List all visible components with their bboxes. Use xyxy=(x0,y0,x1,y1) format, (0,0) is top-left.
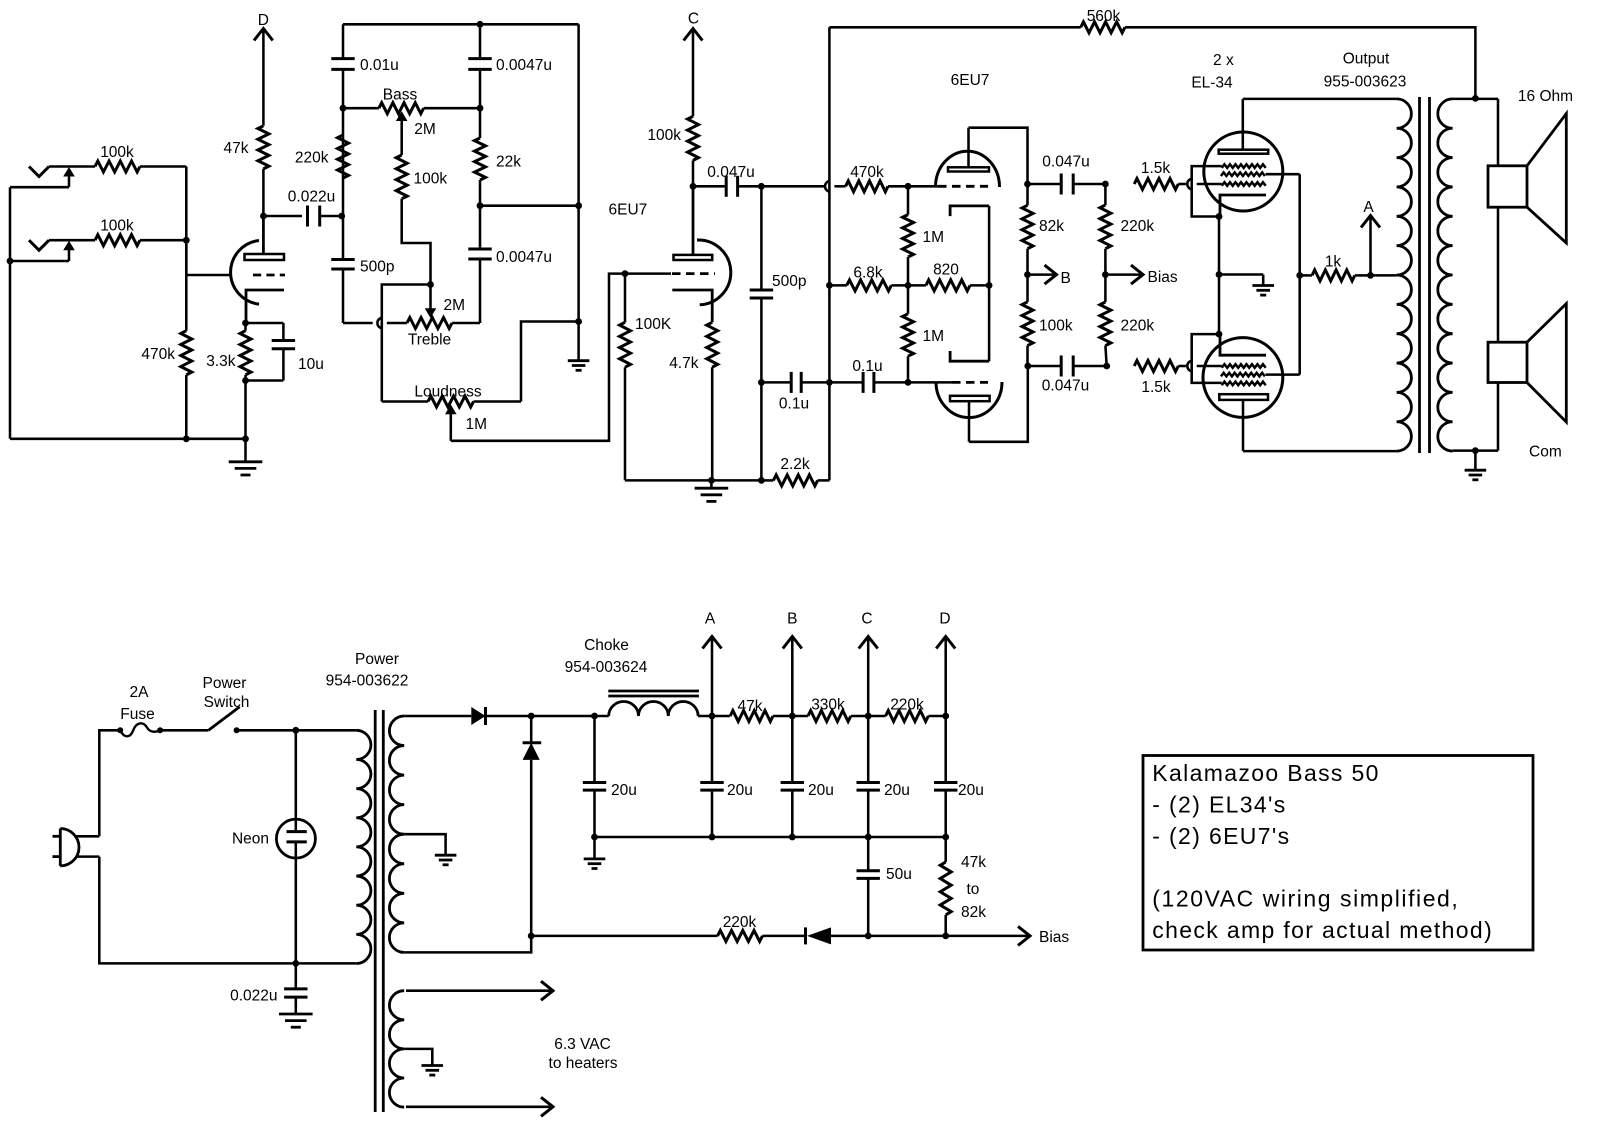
junction cathode ground tap xyxy=(1216,271,1223,278)
junction V1 ground rail xyxy=(242,435,249,442)
wire V5 plate to primary xyxy=(1243,450,1397,453)
capacitor C13 0.022u (line) xyxy=(295,963,298,989)
svg-text:100k: 100k xyxy=(100,144,134,161)
svg-text:220k: 220k xyxy=(890,697,924,714)
triode V2 plate xyxy=(674,255,713,260)
arrow node B (supply) xyxy=(783,637,802,649)
wire left rail xyxy=(9,187,12,439)
capacitor C18 20u xyxy=(944,716,947,783)
svg-text:2M: 2M xyxy=(444,297,466,314)
junction node B rail xyxy=(789,713,796,720)
wire hop (upper grid over bracket) xyxy=(1187,179,1192,190)
arrow Bias (bottom) xyxy=(946,935,1029,938)
wire J1 to node xyxy=(140,165,186,168)
junction V5 cathode xyxy=(1216,331,1223,338)
svg-text:330k: 330k xyxy=(811,697,845,714)
capacitor C4 500p xyxy=(331,258,354,261)
ground (filter rail) xyxy=(593,837,596,859)
V5 suppressor bracket xyxy=(1192,334,1222,383)
wire diode to choke xyxy=(531,715,609,718)
junction rail C18 xyxy=(942,834,949,841)
svg-text:47k: 47k xyxy=(224,140,249,157)
junction 500p bottom xyxy=(758,379,765,386)
svg-text:100K: 100K xyxy=(635,316,672,333)
svg-text:2.2k: 2.2k xyxy=(780,456,810,473)
capacitor C10 0.1u xyxy=(829,381,863,384)
junction V3B out xyxy=(1024,363,1031,370)
junction screen rail xyxy=(1296,272,1303,279)
svg-text:500p: 500p xyxy=(772,273,806,290)
wire J2 to node xyxy=(140,239,186,242)
resistor R3 47k (V1 plate) xyxy=(258,126,269,169)
svg-text:6.3 VAC: 6.3 VAC xyxy=(554,1036,611,1053)
pentode V4 envelope xyxy=(1204,132,1283,211)
svg-text:1k: 1k xyxy=(1325,254,1342,271)
ground (V1 cathode) xyxy=(244,439,247,462)
svg-text:B: B xyxy=(1061,270,1071,287)
resistor R5 3.3k (cathode) xyxy=(240,331,251,375)
resistor R21 220k (lower) xyxy=(1100,302,1111,346)
junction V1 plate node xyxy=(260,213,267,220)
svg-text:220k: 220k xyxy=(1121,318,1155,335)
svg-text:0.047u: 0.047u xyxy=(1042,154,1089,171)
triode V3A plate xyxy=(948,167,989,171)
wire 220k to D xyxy=(928,715,945,718)
wire treble wiper top rail xyxy=(382,285,431,402)
svg-text:Choke: Choke xyxy=(584,637,629,654)
wire PI grid xyxy=(908,185,938,188)
svg-text:20u: 20u xyxy=(611,782,637,799)
triode V1 plate xyxy=(245,254,285,260)
resistor R25 560k (feedback) xyxy=(1081,22,1125,33)
svg-text:22k: 22k xyxy=(496,154,521,171)
diode D3 (bias) xyxy=(804,927,807,944)
junction neon top xyxy=(292,727,299,734)
svg-text:0.0047u: 0.0047u xyxy=(496,57,552,74)
output transformer T2 secondary xyxy=(1438,99,1453,451)
resistor R24 1k (screen) xyxy=(1300,274,1312,277)
capacitor C17 20u xyxy=(867,716,870,783)
pentode V4 grid g3 xyxy=(1222,164,1266,168)
svg-text:100k: 100k xyxy=(414,171,448,188)
junction top rail xyxy=(477,21,484,28)
resistor R4 470k (grid leak) xyxy=(181,331,192,375)
svg-text:(120VAC wiring simplified,: (120VAC wiring simplified, xyxy=(1152,886,1459,912)
ground (line cap) xyxy=(295,997,298,1014)
junction lower drive xyxy=(1103,363,1110,370)
pentode V5 grid g3 xyxy=(1222,382,1266,386)
junction bias feed xyxy=(1102,271,1109,278)
capacitor C15 20u xyxy=(711,716,714,783)
resistor R23 1.5k (lower) xyxy=(1134,361,1178,372)
junction 0.1u right xyxy=(905,379,912,386)
svg-text:20u: 20u xyxy=(727,782,753,799)
V4 suppressor bracket xyxy=(1192,166,1222,216)
filter ground rail xyxy=(595,836,946,839)
capacitor C6 0.0047u (bottom) xyxy=(479,206,482,249)
junction 2.2k left xyxy=(758,477,765,484)
junction rail C14 xyxy=(591,834,598,841)
svg-text:Loudness: Loudness xyxy=(414,384,481,401)
svg-text:- (2) EL34's: - (2) EL34's xyxy=(1152,791,1286,817)
capacitor C14 20u xyxy=(593,716,596,783)
resistor R2 100k (input 2) xyxy=(95,235,140,246)
capacitor C9 0.1u xyxy=(761,381,791,384)
output transformer T2 core xyxy=(1418,97,1421,453)
svg-text:220k: 220k xyxy=(723,914,757,931)
wire loudness right to ground column xyxy=(521,322,579,402)
svg-text:50u: 50u xyxy=(886,866,912,883)
junction neon bottom xyxy=(292,960,299,967)
resistor R27 330k (B-C) xyxy=(808,711,851,722)
svg-text:C: C xyxy=(861,611,872,628)
svg-text:2A: 2A xyxy=(130,684,150,701)
resistor R8 22k xyxy=(475,138,486,180)
triode V3A cathode xyxy=(950,206,989,216)
wire to speaker 1 xyxy=(1497,99,1500,166)
svg-text:82k: 82k xyxy=(961,904,986,921)
svg-text:Power: Power xyxy=(355,651,399,668)
pentode V5 grid g2 xyxy=(1221,373,1265,377)
triode V1 grid (dashed) xyxy=(253,274,285,277)
power transformer T1 HV secondary xyxy=(389,716,404,952)
svg-text:EL-34: EL-34 xyxy=(1191,75,1233,92)
wire hop (PI input over feedback line) xyxy=(825,181,830,192)
junction rail C15 xyxy=(709,834,716,841)
capacitor C7 0.047u xyxy=(693,185,726,188)
jack J2 tip arrow xyxy=(10,260,69,263)
resistor R22 1.5k (upper) xyxy=(1134,179,1178,190)
cathode tie bracket xyxy=(988,206,991,361)
resistor R12 470k (PI input) xyxy=(846,181,888,192)
svg-text:D: D xyxy=(258,12,269,29)
arrow node D (supply) xyxy=(936,637,955,649)
junction 470k bottom xyxy=(183,435,190,442)
triode V1 cathode xyxy=(246,290,284,323)
triode V2 grid (dashed) xyxy=(672,272,715,275)
triode V3A envelope (dome) xyxy=(936,151,1000,187)
diode D2 (bias rectifier) xyxy=(530,716,533,743)
wire mid rail xyxy=(480,204,579,207)
wire cathode rail xyxy=(1218,217,1221,335)
junction rail C17 xyxy=(865,834,872,841)
wire PI input row xyxy=(761,185,824,188)
svg-text:82k: 82k xyxy=(1039,218,1064,235)
junction node D rail xyxy=(942,713,949,720)
junction mid rail right xyxy=(575,202,582,209)
svg-text:954-003624: 954-003624 xyxy=(565,659,648,676)
wire 220k to diode xyxy=(763,935,806,938)
svg-text:47k: 47k xyxy=(961,854,986,871)
junction feedback 0.1u xyxy=(826,379,833,386)
junction bias line left xyxy=(528,933,535,940)
svg-text:220k: 220k xyxy=(1121,218,1155,235)
resistor R13 2.2k (feedback) xyxy=(761,479,773,482)
resistor R20 220k (upper) xyxy=(1104,184,1107,205)
svg-text:4.7k: 4.7k xyxy=(669,355,699,372)
wire wiper to V2 grid xyxy=(451,274,671,441)
svg-text:820: 820 xyxy=(933,262,959,279)
wire feedback xyxy=(829,26,1080,29)
svg-text:3.3k: 3.3k xyxy=(206,353,236,370)
pentode V4 grid g1 xyxy=(1222,182,1266,186)
node D arrow (V1 supply) xyxy=(254,29,273,41)
junction grid node xyxy=(183,237,190,244)
junction cathode bottom xyxy=(242,377,249,384)
svg-text:100k: 100k xyxy=(1039,318,1073,335)
svg-text:0.022u: 0.022u xyxy=(230,988,277,1005)
resistor R28 220k (C-D) xyxy=(886,711,929,722)
arrow node A xyxy=(1361,216,1380,228)
pentode V4 plate xyxy=(1219,150,1269,154)
svg-text:0.01u: 0.01u xyxy=(360,57,399,74)
junction C7 right xyxy=(758,183,765,190)
wire 100k to V2 plate xyxy=(692,160,695,255)
svg-text:Neon: Neon xyxy=(232,831,269,848)
svg-text:to heaters: to heaters xyxy=(549,1055,618,1072)
svg-text:955-003623: 955-003623 xyxy=(1324,74,1407,91)
ground (HV center tap) xyxy=(444,852,447,856)
heater lead bottom xyxy=(406,1106,552,1109)
ground (V2 cathode) xyxy=(710,480,713,488)
svg-text:Bass: Bass xyxy=(383,87,418,104)
svg-text:0.1u: 0.1u xyxy=(779,396,809,413)
wire bass wiper to treble xyxy=(402,199,431,285)
arrow node C (supply) xyxy=(859,637,878,649)
capacitor C1 10u (cathode bypass) xyxy=(246,322,284,325)
wire bias line xyxy=(531,935,717,938)
svg-text:Treble: Treble xyxy=(408,332,451,349)
speaker SP1 xyxy=(1488,166,1527,207)
wire 470k to PI grid xyxy=(888,185,908,188)
resistor R14 1M (upper) xyxy=(907,186,910,214)
junction rail C16 xyxy=(789,834,796,841)
triode V2 envelope xyxy=(697,240,731,305)
wire V3B plate to node xyxy=(969,366,1028,442)
wire V3A plate to node xyxy=(969,128,1028,184)
resistor R17 820 (PI cathode) xyxy=(908,284,926,287)
resistor R11 100k (V2 plate) xyxy=(688,116,699,160)
input jack J1 (top) xyxy=(29,167,49,177)
wire feedback column xyxy=(828,27,831,480)
heater center tap xyxy=(404,1049,432,1062)
power transformer T1 heater winding xyxy=(389,991,404,1107)
wire to ground xyxy=(1219,273,1263,276)
choke L1 xyxy=(609,702,698,717)
neon lamp NE1 xyxy=(295,730,298,831)
wire secondary bottom xyxy=(1453,449,1498,452)
triode V3B grid (dashed) xyxy=(952,381,988,384)
junction 22k bottom xyxy=(477,202,484,209)
wire speaker1 to speaker2 xyxy=(1497,207,1500,342)
svg-text:1M: 1M xyxy=(466,416,488,433)
wire HV bottom xyxy=(404,936,531,953)
capacitor C3 0.01u xyxy=(331,57,354,60)
svg-text:470k: 470k xyxy=(141,346,175,363)
svg-text:- (2) 6EU7's: - (2) 6EU7's xyxy=(1152,823,1290,849)
svg-text:20u: 20u xyxy=(808,782,834,799)
triode V2 cathode xyxy=(672,290,712,322)
capacitor C16 20u xyxy=(791,716,794,783)
arrow node B xyxy=(1028,273,1056,276)
potentiometer Bass 2M xyxy=(343,107,379,110)
junction 820 right xyxy=(986,282,993,289)
svg-text:2 x: 2 x xyxy=(1213,52,1234,69)
svg-text:16 Ohm: 16 Ohm xyxy=(1518,88,1573,105)
wire plug top to fuse xyxy=(99,730,120,836)
wire HV to diode xyxy=(404,715,471,718)
junction node C rail xyxy=(865,713,872,720)
resistor R7 100k (bass wiper) xyxy=(396,155,407,199)
svg-text:Com: Com xyxy=(1529,443,1562,460)
wire 47k to B xyxy=(773,715,808,718)
pentode V5 plate xyxy=(1219,394,1268,400)
note box xyxy=(1143,756,1533,951)
svg-text:10u: 10u xyxy=(298,356,324,373)
wire secondary top xyxy=(1453,98,1498,101)
wire screen rail xyxy=(1298,174,1301,374)
ground (heater center tap) xyxy=(431,1062,434,1066)
svg-text:Output: Output xyxy=(1343,51,1390,68)
svg-text:560k: 560k xyxy=(1087,8,1121,25)
wire V4 plate to primary xyxy=(1243,98,1397,101)
ground (tone stack) xyxy=(577,322,580,361)
resistor R30 220k (bias feed) xyxy=(718,930,763,941)
resistor R15 6.8k xyxy=(829,284,846,287)
wire speaker2 to common xyxy=(1497,383,1500,451)
power switch S1 xyxy=(209,707,240,731)
svg-text:20u: 20u xyxy=(884,782,910,799)
wire 761 column bottom xyxy=(760,382,763,480)
svg-text:1M: 1M xyxy=(923,229,945,246)
junction secondary top xyxy=(1472,95,1479,102)
resistor R18 82k xyxy=(1026,184,1029,205)
capacitor C12 0.047u (lower) xyxy=(1028,365,1061,368)
speaker SP2 xyxy=(1488,342,1527,382)
junction C2 right xyxy=(338,213,345,220)
resistor R29 47k-82k (bias) xyxy=(944,837,947,862)
svg-text:6EU7: 6EU7 xyxy=(951,72,990,89)
wire 330k to C xyxy=(851,715,886,718)
resistor R1 100k (input 1) xyxy=(95,161,140,172)
fuse F1 2A xyxy=(117,727,123,733)
wire 47k to plate node xyxy=(262,169,265,254)
capacitor C8 500p (divider) xyxy=(760,186,763,290)
junction cathode top xyxy=(242,320,249,327)
junction tone ground xyxy=(575,318,582,325)
diode D1 (rectifier) xyxy=(471,707,485,725)
wire 500p to treble row xyxy=(343,322,373,325)
svg-text:500p: 500p xyxy=(360,259,394,276)
capacitor C19 50u xyxy=(867,837,870,871)
HV center tap xyxy=(404,834,445,851)
svg-text:A: A xyxy=(705,611,716,628)
treble wiper xyxy=(429,285,432,311)
junction filter cap 1 xyxy=(591,713,598,720)
power transformer T1 primary xyxy=(356,730,371,963)
bass wiper arrow xyxy=(396,111,408,121)
wire hop (lower grid over bracket) xyxy=(1187,361,1192,372)
svg-text:20u: 20u xyxy=(958,782,984,799)
loudness wiper arrow xyxy=(445,405,457,415)
resistor R9 100K (V2 grid leak) xyxy=(620,322,631,367)
junction bass row right xyxy=(477,105,484,112)
arrow node A (supply) xyxy=(703,637,722,649)
junction node A rail xyxy=(709,713,716,720)
ground (speaker common) xyxy=(1474,451,1477,471)
svg-text:0.022u: 0.022u xyxy=(288,189,335,206)
svg-text:100k: 100k xyxy=(100,218,134,235)
svg-text:1.5k: 1.5k xyxy=(1141,379,1171,396)
resistor R26 47k (A-B) xyxy=(730,711,773,722)
svg-text:0.047u: 0.047u xyxy=(707,164,754,181)
svg-text:47k: 47k xyxy=(738,698,763,715)
svg-text:A: A xyxy=(1363,199,1374,216)
junction node B (PI) xyxy=(1024,271,1031,278)
junction PI grid node xyxy=(905,183,912,190)
junction bias R bottom xyxy=(942,933,949,940)
wire 1k to primary CT xyxy=(1371,274,1397,277)
wire bias to arrow xyxy=(868,935,946,938)
junction V2 plate node xyxy=(690,183,697,190)
jack J1 tip arrow xyxy=(10,186,69,189)
input jack J2 (bottom) xyxy=(29,240,49,250)
pentode V4 cathode xyxy=(1220,195,1266,217)
svg-text:6EU7: 6EU7 xyxy=(609,202,648,219)
junction node A (screen) xyxy=(1367,272,1374,279)
pentode V5 envelope xyxy=(1203,338,1283,418)
svg-text:check amp for actual method): check amp for actual method) xyxy=(1152,917,1493,943)
svg-text:Switch: Switch xyxy=(204,694,250,711)
junction upper drive xyxy=(1102,181,1109,188)
capacitor C2 0.022u xyxy=(263,215,302,218)
junction 50u bottom xyxy=(865,933,872,940)
wire choke to A xyxy=(698,715,730,718)
pentode V4 grid g2 xyxy=(1221,172,1265,176)
svg-text:Power: Power xyxy=(203,675,247,692)
pentode V5 cathode xyxy=(1220,334,1266,355)
resistor R16 1M (lower) xyxy=(907,285,910,313)
svg-text:2M: 2M xyxy=(414,121,436,138)
junction left rail jack2 xyxy=(7,258,14,265)
choke core xyxy=(608,690,699,693)
svg-text:1.5k: 1.5k xyxy=(1141,160,1171,177)
svg-text:C: C xyxy=(688,11,699,28)
svg-text:100k: 100k xyxy=(647,127,681,144)
junction V4 cathode xyxy=(1216,213,1223,220)
svg-text:B: B xyxy=(787,611,797,628)
svg-text:D: D xyxy=(939,611,950,628)
wire grid down to V1 grid xyxy=(185,240,188,275)
potentiometer Loudness 1M xyxy=(382,400,428,403)
triode V3B plate xyxy=(950,396,990,401)
wire switch to primary xyxy=(237,729,357,732)
junction 6.8k right xyxy=(905,282,912,289)
pentode V5 grid g1 xyxy=(1222,364,1266,368)
capacitor C5 0.0047u (top) xyxy=(468,57,491,60)
wire hop (treble row over wiper line) xyxy=(377,318,382,329)
svg-text:to: to xyxy=(967,881,980,898)
junction feedback 6.8k xyxy=(826,282,833,289)
node C arrow (V2 supply) xyxy=(684,29,703,41)
svg-text:1M: 1M xyxy=(923,328,945,345)
resistor R6 220k xyxy=(338,135,349,178)
triode V3B envelope (bowl) xyxy=(936,382,1002,418)
capacitor C11 0.047u (upper) xyxy=(1028,183,1062,186)
svg-text:470k: 470k xyxy=(850,164,884,181)
svg-text:0.1u: 0.1u xyxy=(852,358,882,375)
ground (EL34 cathodes) xyxy=(1262,275,1265,286)
